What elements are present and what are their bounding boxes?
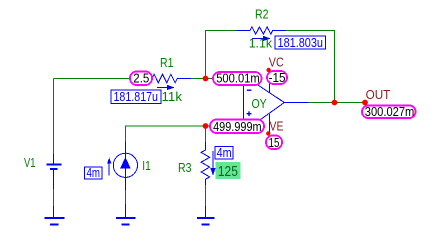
resistor R1 <box>146 74 191 83</box>
svg-text:V1: V1 <box>24 155 36 170</box>
wire <box>205 185 207 206</box>
node label 300.027m <box>362 104 416 119</box>
ground (R3) <box>197 206 215 225</box>
svg-text:I1: I1 <box>142 158 151 173</box>
wire <box>126 126 244 142</box>
op-amp plus sign <box>247 111 252 116</box>
value 125 highlighted <box>216 162 241 180</box>
svg-text:-15: -15 <box>269 70 286 85</box>
node label -15 <box>267 70 287 85</box>
wire <box>205 126 207 143</box>
svg-text:4m: 4m <box>87 165 101 180</box>
current arrow R3 <box>210 151 215 176</box>
svg-text:VE: VE <box>270 119 284 134</box>
svg-text:181.803u: 181.803u <box>278 35 324 50</box>
node junction dot (R2/output) <box>332 100 338 106</box>
svg-text:R3: R3 <box>178 160 192 175</box>
svg-text:R2: R2 <box>255 7 269 22</box>
op-amp output lead <box>284 102 308 104</box>
current arrow I1 external <box>107 158 112 176</box>
svg-text:R1: R1 <box>160 55 174 70</box>
op-amp OY body <box>244 85 285 120</box>
resistor R2 <box>236 27 286 34</box>
svg-text:499.999m: 499.999m <box>213 119 262 134</box>
ground (I1) <box>116 204 136 225</box>
svg-text:2.5: 2.5 <box>133 71 149 86</box>
svg-text:VC: VC <box>269 55 284 70</box>
wire <box>286 31 335 103</box>
svg-text:OY: OY <box>252 96 267 111</box>
current arrow R2 <box>252 36 271 41</box>
node label 15 <box>266 135 282 150</box>
node VC pin dot <box>266 68 270 72</box>
value box 181.817u <box>111 89 161 104</box>
svg-text:1.1k: 1.1k <box>249 36 273 51</box>
svg-text:OUT: OUT <box>366 87 391 102</box>
current source I1 <box>113 142 137 191</box>
node label 2.5 <box>130 71 152 86</box>
resistor R3 <box>201 142 210 185</box>
svg-text:15: 15 <box>269 135 280 150</box>
node label 500.01m <box>213 71 262 86</box>
ground (V1) <box>45 206 65 225</box>
op-amp VC pin <box>269 70 271 93</box>
node junction dot (R1/R2/opamp-) <box>203 76 209 82</box>
wire <box>206 31 237 79</box>
value box 4m (R3) <box>215 145 233 160</box>
current arrow R1 <box>157 85 175 90</box>
voltage source V1 battery <box>47 154 62 189</box>
value box 181.803u <box>275 35 326 50</box>
node VE pin dot <box>266 131 270 135</box>
node OUT terminal dot <box>362 100 368 106</box>
svg-text:181.817u: 181.817u <box>114 89 159 104</box>
node junction dot (I1/R3/opamp+) <box>203 123 209 129</box>
wire <box>125 190 127 204</box>
svg-text:500.01m: 500.01m <box>216 71 260 86</box>
node label 499.999m <box>210 119 264 134</box>
wire <box>53 188 55 206</box>
wire <box>53 79 55 155</box>
svg-text:300.027m: 300.027m <box>365 104 415 119</box>
op-amp VE pin <box>269 114 271 134</box>
wire <box>54 78 131 80</box>
svg-text:4m: 4m <box>217 145 232 160</box>
svg-text:125: 125 <box>218 164 238 180</box>
wire <box>191 78 243 80</box>
op-amp minus sign <box>247 89 252 91</box>
svg-text:11k: 11k <box>162 89 183 104</box>
value box 4m (I1) <box>85 165 103 180</box>
wire <box>309 102 366 104</box>
